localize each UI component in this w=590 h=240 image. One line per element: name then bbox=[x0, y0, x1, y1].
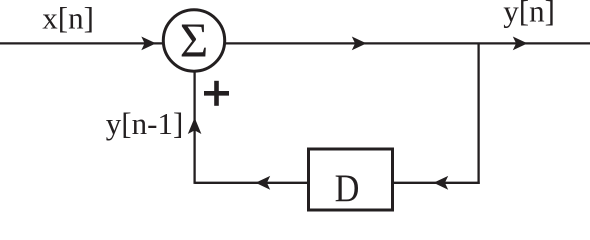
wire: feedback horizontal line through delay bbox=[195, 182, 480, 184]
svg-text:y[n]: y[n] bbox=[503, 0, 555, 28]
svg-text:Σ: Σ bbox=[180, 12, 209, 67]
arrowhead: output arrow near y[n] bbox=[513, 37, 528, 51]
arrowhead: input arrow into summer bbox=[141, 37, 156, 51]
op-amp summer circle U1 bbox=[163, 10, 224, 71]
svg-text:x[n]: x[n] bbox=[42, 1, 94, 36]
wire: feedback vertical drop at right branch bbox=[477, 43, 479, 184]
arrowhead: feedback arrow up into summer bbox=[188, 118, 202, 134]
wire: feedback vertical rise into summer bbox=[193, 70, 195, 184]
delay block D bbox=[309, 149, 393, 210]
arrowhead: output arrow mid line bbox=[352, 37, 367, 51]
svg-text:D: D bbox=[335, 166, 360, 210]
wire: input/output horizontal line x[n] -> y[n] bbox=[0, 42, 590, 44]
arrowhead: feedback arrow into delay box (points left) bbox=[434, 176, 449, 190]
plus sign at summer input bbox=[204, 81, 229, 106]
arrowhead: feedback arrow after delay box (points left) bbox=[256, 176, 271, 190]
svg-text:y[n-1]: y[n-1] bbox=[106, 106, 183, 141]
